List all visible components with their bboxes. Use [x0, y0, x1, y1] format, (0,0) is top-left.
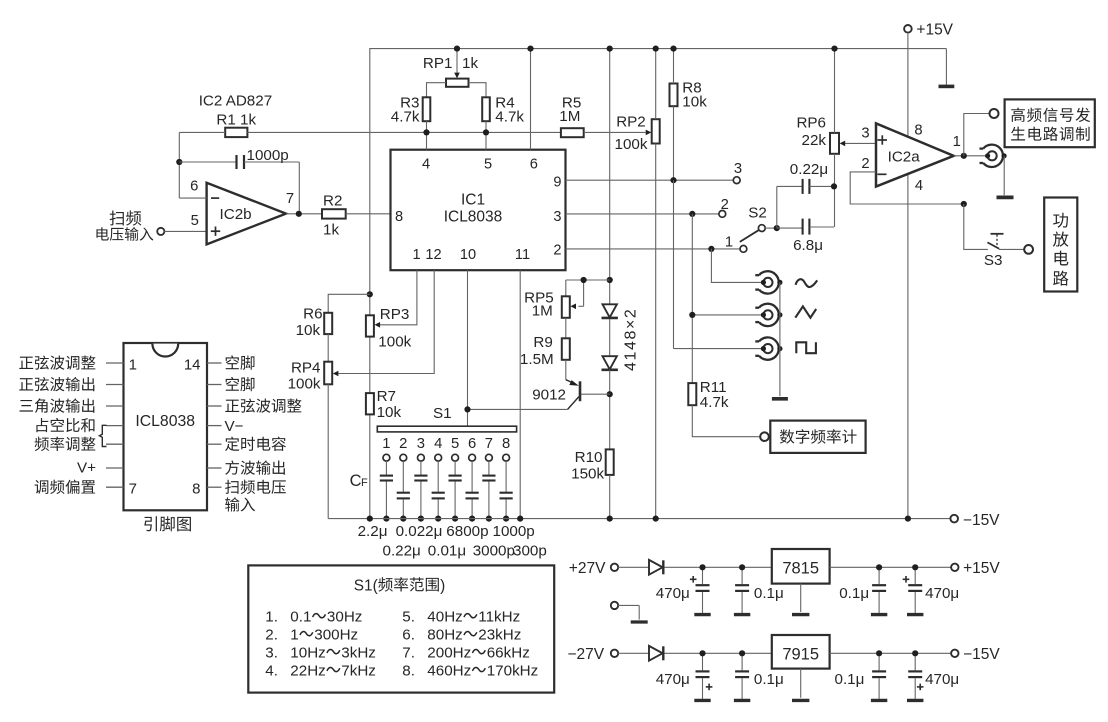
label 占空比和 [36, 418, 94, 432]
wire [179, 197, 206, 199]
wire [609, 49, 611, 305]
svg-text:0.1μ: 0.1μ [754, 585, 784, 602]
wire +15V vertical [907, 33, 909, 519]
resistor R11 [688, 214, 729, 411]
svg-text:R1 1k: R1 1k [216, 112, 256, 129]
resistor R1 [216, 112, 256, 138]
capacitor C5 470u [656, 653, 713, 700]
wire [164, 230, 206, 232]
box 高频信号发生电路调制 [1005, 99, 1095, 147]
svg-text:100k: 100k [378, 334, 411, 351]
junction [581, 277, 587, 283]
capacitor C8 470u [907, 653, 959, 700]
wire [427, 83, 447, 98]
svg-text:0.022μ: 0.022μ [396, 523, 443, 540]
resistor R2 [322, 193, 346, 239]
capacitor C7 0.1u [835, 653, 888, 700]
junction [670, 46, 676, 52]
svg-text:4.: 4. [265, 663, 278, 680]
resistor R10 [571, 449, 614, 482]
capacitor C3 0.1u [839, 567, 887, 614]
wire [1003, 156, 1005, 195]
wire BNC shield [779, 282, 781, 396]
svg-text:1: 1 [129, 356, 137, 373]
junction [831, 183, 837, 189]
potentiometer RP3 [366, 306, 412, 351]
capacitor C4 470u [903, 567, 959, 614]
wire [369, 49, 371, 316]
svg-text:12: 12 [425, 247, 441, 263]
wire frequency-set bus [247, 131, 561, 133]
IC pinout ICL8038 [124, 343, 208, 510]
svg-text:0.01μ: 0.01μ [428, 543, 466, 560]
svg-text:1: 1 [953, 134, 961, 150]
junction [454, 46, 460, 52]
junction [699, 564, 705, 570]
svg-text:7.: 7. [402, 645, 415, 662]
wire [327, 334, 329, 362]
junction [469, 516, 475, 522]
label 调频偏置 [35, 480, 95, 494]
label 空脚 pin14 [226, 355, 255, 369]
wire [566, 279, 610, 281]
label triangle symbol [795, 306, 816, 317]
switch S1 contact 1 [382, 436, 390, 461]
wire [469, 83, 487, 98]
label 正弦波调整 [19, 355, 95, 369]
switch S2 [719, 161, 767, 253]
svg-text:7: 7 [129, 481, 137, 498]
wire IC2a pin2 feedback [850, 172, 964, 204]
potentiometer RP4 [288, 359, 339, 392]
ground [997, 195, 1014, 199]
wire [426, 121, 428, 150]
junction [689, 312, 695, 318]
potentiometer RP1 [423, 49, 479, 87]
resistor R4 [482, 95, 524, 126]
label table title [354, 577, 446, 594]
label V- [225, 418, 244, 435]
svg-text:8.: 8. [402, 663, 415, 680]
svg-text:1: 1 [412, 247, 420, 263]
switch S1 contact 2 [399, 436, 407, 461]
svg-text:7915: 7915 [782, 645, 819, 663]
svg-text:+27V: +27V [569, 560, 606, 577]
diode VD4 [649, 646, 663, 661]
connector BNC triangle [755, 304, 782, 326]
wire [664, 566, 771, 568]
svg-text:3: 3 [734, 161, 742, 177]
junction [486, 516, 492, 522]
power +15V output terminal [951, 560, 1000, 577]
wire [485, 121, 487, 150]
svg-text:1M: 1M [559, 108, 580, 125]
wire [618, 566, 649, 568]
resistor R6 [296, 306, 333, 339]
junction [708, 246, 714, 252]
switch S1 contact 8 [502, 436, 510, 461]
svg-text:460Hz: 460Hz [427, 663, 471, 680]
svg-text:RP4: RP4 [291, 359, 321, 376]
svg-text:4.7k: 4.7k [495, 109, 524, 126]
svg-text:IC1: IC1 [461, 192, 485, 209]
junction [418, 516, 424, 522]
label table row 3 col2 [402, 645, 530, 662]
junction [607, 391, 613, 397]
svg-text:14: 14 [184, 356, 201, 373]
svg-text:2: 2 [553, 243, 561, 259]
label capacitor values [358, 523, 547, 560]
wire pin9 [566, 179, 734, 181]
capacitor CF2 [397, 461, 410, 518]
capacitor 1000p [179, 147, 299, 214]
svg-text:22Hz: 22Hz [290, 663, 325, 680]
svg-text:6: 6 [530, 156, 538, 172]
wire [584, 131, 646, 133]
box 功放电路 [1044, 198, 1077, 292]
svg-text:40Hz: 40Hz [427, 609, 462, 626]
wire [664, 652, 771, 654]
wire [692, 314, 763, 316]
svg-text:0.1μ: 0.1μ [839, 585, 869, 602]
label 三角波输出 [20, 398, 95, 412]
svg-text:6.8μ: 6.8μ [793, 237, 823, 254]
junction [961, 201, 967, 207]
power -15V terminal [950, 512, 1000, 529]
wire [369, 337, 371, 394]
svg-text:10k: 10k [377, 404, 402, 421]
wire [999, 248, 1024, 250]
wire [674, 348, 764, 350]
wire [369, 414, 371, 518]
switch S1 contact 6 [468, 436, 476, 461]
wire [711, 249, 763, 283]
junction [176, 159, 182, 165]
svg-text:4: 4 [915, 178, 923, 194]
svg-text:V−: V− [225, 418, 244, 435]
label 空脚 pin13 [226, 377, 255, 391]
svg-text:C: C [350, 472, 362, 490]
power -15V output terminal [951, 646, 1000, 663]
wire [964, 204, 988, 249]
ground [772, 397, 788, 401]
svg-text:S1(: S1( [354, 577, 379, 594]
junction [912, 650, 918, 656]
junction [452, 516, 458, 522]
wire [692, 405, 760, 437]
svg-text:470μ: 470μ [656, 585, 690, 602]
wire pin10 [467, 270, 469, 426]
capacitor CF4 [432, 461, 445, 518]
svg-text:IC2a: IC2a [888, 148, 921, 165]
svg-text:4: 4 [434, 436, 442, 452]
label table row 4 [265, 663, 376, 680]
junction [689, 211, 695, 217]
junction [367, 516, 373, 522]
rail -15V [328, 518, 950, 520]
wire [179, 131, 225, 133]
svg-text:R10: R10 [575, 449, 603, 466]
svg-text:2: 2 [721, 197, 729, 213]
svg-text:23kHz: 23kHz [478, 627, 521, 644]
resistor R9 [520, 318, 570, 368]
potentiometer RP6 [796, 115, 845, 154]
svg-text:1k: 1k [462, 55, 478, 72]
svg-text:1000p: 1000p [247, 147, 289, 164]
svg-text:7kHz: 7kHz [341, 663, 376, 680]
svg-text:3: 3 [553, 209, 561, 225]
svg-text:RP2: RP2 [616, 113, 646, 130]
svg-text:1: 1 [725, 234, 733, 250]
wire pin2 [566, 248, 740, 250]
capacitor CF7 [482, 461, 495, 518]
node modulation terminal [990, 109, 999, 118]
capacitor C1 470u [656, 567, 711, 614]
wire [609, 319, 611, 356]
wire pin3 [566, 213, 719, 215]
svg-text:10Hz: 10Hz [290, 645, 325, 662]
label V+ [77, 460, 96, 477]
wire [609, 370, 611, 450]
wire pin1 [380, 270, 417, 325]
junction [831, 46, 837, 52]
capacitor C6 0.1u [734, 653, 784, 700]
svg-text:0.1μ: 0.1μ [754, 671, 784, 688]
label 引脚图 [144, 516, 191, 531]
svg-text:+15V: +15V [963, 560, 1000, 577]
svg-text:8: 8 [192, 481, 200, 498]
svg-text:IC2 AD827: IC2 AD827 [199, 93, 272, 110]
svg-text:7815: 7815 [782, 559, 819, 577]
label 频率调整 [35, 437, 96, 451]
svg-text:10k: 10k [682, 93, 707, 110]
switch S1 contact 3 [417, 436, 425, 461]
brace [99, 425, 106, 446]
power +15V terminal [904, 21, 954, 38]
capacitor 6.8u [777, 219, 834, 254]
connector BNC output [980, 145, 1007, 167]
svg-text:): ) [440, 577, 445, 594]
junction [607, 277, 613, 283]
transistor Q1 9012 [532, 360, 580, 410]
wire [954, 155, 988, 157]
wire [800, 669, 802, 698]
svg-text:1M: 1M [532, 303, 553, 320]
svg-text:80Hz: 80Hz [427, 627, 462, 644]
svg-text:11kHz: 11kHz [478, 609, 520, 626]
svg-text:IC2b: IC2b [220, 206, 252, 223]
wire [673, 49, 675, 84]
svg-text:+15V: +15V [916, 21, 953, 38]
junction [876, 564, 882, 570]
svg-text:S3: S3 [984, 252, 1003, 269]
label 定时电容 [225, 437, 286, 451]
op-amp IC2a [861, 122, 961, 194]
capacitor C2 0.1u [734, 567, 784, 614]
junction [653, 516, 659, 522]
svg-text:1: 1 [382, 436, 390, 452]
regulator 7815 [772, 549, 830, 584]
wire [178, 132, 180, 198]
svg-text:V+: V+ [77, 460, 96, 477]
svg-text:1: 1 [290, 627, 298, 644]
wire [765, 227, 777, 229]
svg-text:100k: 100k [615, 136, 648, 153]
svg-text:0.1: 0.1 [290, 609, 311, 626]
svg-text:9012: 9012 [532, 387, 566, 404]
svg-text:1.5M: 1.5M [520, 351, 554, 368]
box 数字频率计 [760, 421, 865, 453]
wire [830, 566, 951, 568]
power +27V terminal [569, 560, 618, 577]
label 扫频电压输入 [96, 210, 153, 240]
capacitor 0.22u [777, 161, 834, 194]
svg-text:1.: 1. [265, 609, 278, 626]
junction [423, 129, 429, 135]
top rail wire [369, 48, 946, 50]
node PSU ground terminal [611, 602, 648, 622]
svg-text:470μ: 470μ [925, 585, 959, 602]
svg-text:8: 8 [914, 122, 922, 138]
switch S1 bar [377, 405, 516, 432]
junction [670, 177, 676, 183]
svg-text:4148×2: 4148×2 [623, 308, 640, 371]
wire RP6 wiper [845, 142, 876, 144]
svg-text:S2: S2 [748, 205, 767, 222]
wire base [581, 393, 610, 395]
capacitor CF6 [466, 461, 479, 518]
svg-text:4: 4 [422, 156, 430, 172]
junction [383, 516, 389, 522]
junction [739, 564, 745, 570]
svg-text:30Hz: 30Hz [327, 609, 362, 626]
junction [739, 650, 745, 656]
junction [464, 406, 470, 412]
potentiometer RP5 [524, 280, 583, 320]
resistor R3 [391, 95, 431, 126]
junction [653, 46, 659, 52]
wire [655, 49, 657, 120]
pin dashes right [207, 363, 222, 487]
potentiometer RP2 [615, 113, 660, 153]
svg-text:8: 8 [502, 436, 510, 452]
svg-text:150k: 150k [571, 465, 604, 482]
wire collector [468, 408, 568, 410]
svg-text:10: 10 [460, 247, 476, 263]
svg-text:5: 5 [484, 156, 492, 172]
resistor R5 [559, 95, 583, 138]
junction [435, 516, 441, 522]
capacitor CF8 [500, 461, 513, 518]
wire pin12 [338, 270, 434, 373]
junction [517, 516, 523, 522]
junction [483, 129, 489, 135]
svg-text:66kHz: 66kHz [487, 645, 530, 662]
svg-text:470μ: 470μ [925, 671, 959, 688]
switch S1 contact 4 [434, 436, 442, 461]
svg-text:ICL8038: ICL8038 [135, 413, 195, 430]
label 正弦波输出 [19, 377, 94, 391]
switch S1 contact 7 [485, 436, 493, 461]
svg-text:RP6: RP6 [796, 115, 826, 132]
wire pin11 [519, 270, 521, 518]
label IC2 AD827 [199, 93, 272, 110]
wire [964, 114, 990, 156]
switch S3 [984, 234, 1004, 269]
label table row 2 col2 [402, 627, 521, 644]
svg-text:3: 3 [861, 125, 869, 141]
box S1 frequency table [248, 565, 554, 692]
wire [800, 584, 802, 612]
wire [655, 144, 657, 519]
svg-text:11: 11 [515, 247, 530, 263]
svg-text:5.: 5. [402, 609, 415, 626]
svg-text:5: 5 [451, 436, 459, 452]
svg-text:R7: R7 [377, 388, 396, 405]
label 正弦波调整 right [225, 398, 301, 412]
wire [609, 475, 611, 519]
junction [296, 211, 302, 217]
svg-text:2.2μ: 2.2μ [358, 523, 388, 540]
svg-text:100k: 100k [288, 375, 321, 392]
wire [618, 652, 649, 654]
label sine symbol [796, 279, 818, 287]
svg-text:22k: 22k [802, 132, 827, 149]
ground [792, 613, 809, 616]
svg-text:7: 7 [485, 436, 493, 452]
diode VD1 4148 [602, 304, 618, 318]
svg-text:3: 3 [417, 436, 425, 452]
wire [346, 213, 391, 215]
svg-text:−15V: −15V [963, 512, 1000, 529]
svg-text:3000p: 3000p [473, 543, 515, 560]
junction [367, 291, 373, 297]
svg-text:2.: 2. [265, 627, 278, 644]
svg-text:−15V: −15V [963, 646, 1000, 663]
wire [328, 294, 370, 313]
resistor R7 [366, 388, 402, 421]
svg-text:0.1μ: 0.1μ [835, 671, 865, 688]
svg-text:470μ: 470μ [656, 671, 690, 688]
svg-text:10k: 10k [296, 322, 321, 339]
op-amp IC2b [190, 179, 294, 245]
junction [912, 564, 918, 570]
connector BNC square [755, 337, 782, 359]
svg-text:5: 5 [191, 213, 199, 229]
label table row 3 [265, 645, 376, 662]
svg-text:6800p: 6800p [446, 523, 488, 540]
wire [834, 49, 836, 133]
svg-text:0.22μ: 0.22μ [790, 161, 828, 178]
svg-text:2: 2 [861, 156, 869, 172]
wire pin6 [530, 49, 532, 150]
svg-text:9: 9 [553, 175, 561, 191]
power -27V terminal [568, 646, 619, 663]
wire [327, 384, 329, 518]
svg-text:0.22μ: 0.22μ [383, 543, 421, 560]
resistor R8 [670, 80, 708, 111]
junction [699, 650, 705, 656]
junction [400, 516, 406, 522]
node S3 terminal [1024, 245, 1033, 254]
svg-text:4.7k: 4.7k [700, 394, 729, 411]
wire output IC2b [286, 213, 322, 215]
junction [607, 516, 613, 522]
connector BNC sine [755, 271, 782, 293]
label 扫频电压输入 right [225, 480, 286, 512]
svg-text:7: 7 [286, 191, 294, 207]
wire [673, 106, 675, 180]
